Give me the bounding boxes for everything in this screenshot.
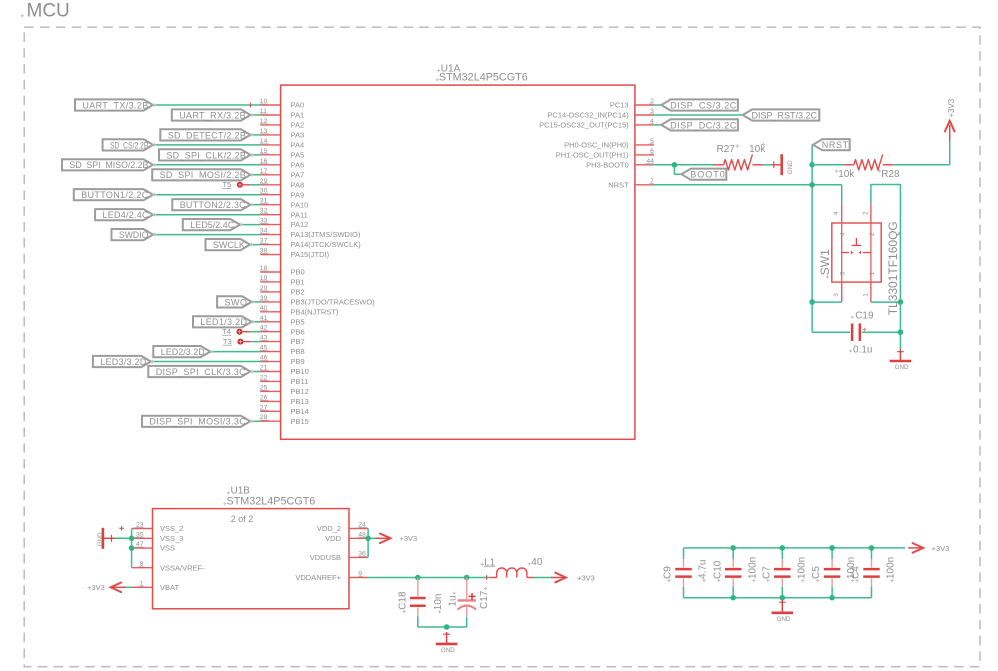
net flag NRST	[813, 139, 850, 150]
svg-text:PH3-BOOT0: PH3-BOOT0	[586, 160, 629, 169]
net flag SD_SPI_MISO/2.2B	[62, 159, 156, 170]
U1A pin 6 PH1-OSC_OUT(PH1)	[556, 148, 654, 160]
junction VSS	[129, 545, 135, 551]
junction cap bank bottom rail	[730, 595, 736, 601]
U1A pin 12 PA2	[260, 118, 304, 130]
wire net UART_RX	[251, 114, 261, 116]
svg-text:PA9: PA9	[291, 190, 305, 199]
junction VDD	[365, 536, 371, 542]
+3V3 supply arrow at VBAT	[111, 583, 126, 593]
svg-text:PA14(JTCK/SWCLK): PA14(JTCK/SWCLK)	[291, 240, 362, 249]
svg-text:PA12: PA12	[291, 220, 309, 229]
svg-text:DISP_SPI_CLK/3.3C: DISP_SPI_CLK/3.3C	[156, 367, 246, 377]
+3V3 supply arrow cap bank	[908, 543, 923, 553]
junction cap bank bottom rail	[780, 595, 786, 601]
net flag SD_SPI_CLK/2.2B	[159, 149, 254, 160]
U1A pin 45 PB8	[260, 345, 305, 357]
svg-text:R27: R27	[717, 144, 736, 155]
U1A pin 29 PA8	[260, 178, 304, 190]
net flag SD_SPI_MOSI/2.2B	[152, 169, 254, 180]
U1A value STM32L4P5CGT6	[436, 71, 528, 83]
+3V3 label after L1	[577, 573, 595, 582]
net flag DISP_CS/3.2C	[661, 99, 738, 110]
C5 value 100n (rotated)	[846, 557, 857, 582]
capacitor C17 polarized	[458, 578, 477, 617]
U1A pin 30 PA9	[260, 188, 304, 200]
ground symbol left of U1B (rotated)	[97, 526, 124, 549]
svg-text:PA6: PA6	[291, 160, 305, 169]
net flag BUTTON1/2.2C	[74, 189, 157, 200]
wire VBAT to +3V3	[121, 586, 132, 588]
+3V3 supply arrow at VDD	[376, 534, 391, 544]
wire net LED4	[153, 214, 260, 216]
U1A pin 3 PC14-OSC32_IN(PC14)	[547, 108, 654, 120]
svg-text:SW1: SW1	[818, 249, 832, 275]
wire VDDANREF+ net	[368, 577, 490, 579]
svg-text:SWO: SWO	[225, 297, 248, 307]
SW1 pad numbers	[833, 211, 869, 297]
test point T4	[222, 327, 250, 336]
U1A pin 40 PB4(NJTRST)	[260, 305, 339, 317]
U1A reference designator	[437, 63, 461, 74]
resistor R27	[713, 154, 763, 170]
svg-text:VDD_2: VDD_2	[317, 524, 341, 533]
junction bottom rail GND	[444, 624, 450, 630]
net flag SD_CS/2.2B	[103, 139, 157, 150]
svg-text:SWCLK: SWCLK	[213, 240, 245, 250]
net flag DISP_SPI_CLK/3.3C	[148, 366, 253, 377]
svg-text:TL3301TF160QG: TL3301TF160QG	[886, 221, 900, 315]
svg-text:SD_CS/2.2B: SD_CS/2.2B	[110, 140, 148, 150]
U1A pin 7 NRST	[608, 178, 654, 190]
svg-text:T5: T5	[222, 180, 231, 189]
svg-text:PB13: PB13	[291, 397, 309, 406]
svg-text:T3: T3	[223, 337, 232, 346]
svg-text:LED5/2.4C: LED5/2.4C	[190, 220, 235, 230]
R28 name label	[878, 169, 900, 180]
U1A pin 33 PA12	[260, 218, 308, 230]
wire net UART_TX	[153, 104, 260, 106]
wire VSS rail	[115, 529, 132, 568]
U1A pin 28 PB15	[260, 414, 309, 426]
svg-text:BUTTON2/2.3C: BUTTON2/2.3C	[180, 200, 246, 210]
wire net SD_SPI_MOSI	[250, 174, 260, 176]
svg-text:PB6: PB6	[291, 327, 305, 336]
svg-text:PH0-OSC_IN(PH0): PH0-OSC_IN(PH0)	[564, 141, 629, 150]
sheet title MCU	[21, 1, 70, 22]
wire net NRST horizontal from pin 7	[654, 184, 842, 186]
svg-text:2: 2	[869, 232, 876, 236]
net flag SWCLK	[206, 239, 254, 250]
svg-text:0.1u: 0.1u	[853, 345, 872, 356]
ground symbol below switch	[890, 350, 912, 372]
svg-text:C10: C10	[712, 560, 723, 579]
svg-text:100n: 100n	[796, 557, 807, 579]
svg-text:2 of 2: 2 of 2	[231, 514, 254, 524]
net tie tick before L1	[486, 575, 488, 580]
svg-text:PA4: PA4	[291, 141, 305, 150]
U1B pin 35 VSS_3	[132, 531, 184, 543]
L1 name label	[481, 558, 496, 569]
svg-text:SD_SPI_MISO/2.2B: SD_SPI_MISO/2.2B	[69, 160, 148, 170]
svg-text:+3V3: +3V3	[932, 544, 950, 553]
svg-text:GND: GND	[441, 647, 455, 654]
svg-text:LED3/3.2D: LED3/3.2D	[100, 357, 146, 367]
svg-text:VDDANREF+: VDDANREF+	[295, 573, 341, 582]
svg-text:NRST: NRST	[608, 180, 629, 189]
R27 name label	[717, 144, 740, 155]
junction cap bank bottom rail	[829, 595, 835, 601]
junction cap bank top rail	[730, 545, 736, 551]
net flag SWO	[217, 296, 255, 307]
U1A pin 37 PA14(JTCK/SWCLK)	[260, 238, 361, 250]
wire +3V3 top rail of cap bank	[684, 547, 906, 549]
U1A pin 20 PB2	[260, 285, 305, 297]
U1A pin 27 PB14	[260, 404, 309, 416]
svg-text:10n: 10n	[433, 594, 444, 611]
capacitor C9	[675, 548, 692, 598]
C17 value 1u (rotated)	[448, 592, 459, 607]
wire net SD_CS	[153, 144, 260, 146]
U1B pin 48 VDD	[325, 531, 368, 543]
svg-text:PC14-OSC32_IN(PC14): PC14-OSC32_IN(PC14)	[547, 111, 629, 120]
svg-text:PA5: PA5	[291, 150, 305, 159]
U1A pin 41 PB5	[260, 315, 305, 327]
U1A pin 2 PC13	[610, 98, 654, 110]
IC U1A STM32L4P5CGT6 body	[281, 85, 635, 439]
ground symbol right of R27 (rotated)	[772, 154, 794, 175]
capacitor C10	[725, 548, 742, 598]
C7 name label (rotated)	[761, 566, 772, 582]
C18 name label (rotated)	[398, 591, 409, 613]
wire net DISP_SPI_CLK	[250, 371, 260, 373]
U1A pin 42 PB6	[260, 325, 305, 337]
svg-text:GND: GND	[895, 364, 909, 371]
svg-text:100n: 100n	[886, 557, 897, 579]
svg-text:SWDIO: SWDIO	[119, 230, 148, 240]
C17 name label (rotated)	[479, 587, 490, 609]
wire net SWO	[252, 301, 261, 303]
U1A pin 31 PA10	[260, 198, 308, 210]
wire to test point T3	[251, 341, 261, 343]
U1A pin 5 PH0-OSC_IN(PH0)	[564, 138, 654, 150]
svg-text:GND: GND	[97, 532, 104, 546]
svg-text:NRST: NRST	[822, 140, 849, 150]
wire SW1 pin 1 to right rail	[871, 301, 901, 303]
svg-text:PA11: PA11	[291, 210, 308, 219]
capacitor C7	[774, 548, 791, 598]
SW1 pin names inside body	[840, 232, 876, 275]
C10 name label (rotated)	[712, 560, 723, 582]
U1A pin 43 PB7	[260, 335, 305, 347]
svg-text:1: 1	[869, 271, 876, 275]
svg-text:PA10: PA10	[291, 200, 309, 209]
svg-text:VBAT: VBAT	[160, 583, 179, 592]
svg-text:GND: GND	[777, 616, 791, 623]
svg-text:PB15: PB15	[291, 417, 309, 426]
U1B pin 8 VSSA/VREF-	[132, 561, 205, 573]
svg-text:PB4(NJTRST): PB4(NJTRST)	[291, 307, 339, 316]
U1A pin 46 PB9	[260, 355, 305, 367]
svg-text:+3V3: +3V3	[87, 583, 105, 592]
svg-text:SD_DETECT/2.2B: SD_DETECT/2.2B	[168, 130, 246, 140]
C5 name label (rotated)	[811, 566, 822, 582]
U1B value STM32L4P5CGT6	[223, 495, 315, 507]
junction C19 right / GND	[898, 329, 904, 335]
svg-text:+3V3: +3V3	[400, 534, 418, 543]
svg-text:C18: C18	[398, 591, 409, 610]
svg-text:STM32L4P5CGT6: STM32L4P5CGT6	[439, 71, 528, 83]
wire net SD_SPI_MISO	[153, 164, 260, 166]
wire R28 left	[812, 164, 843, 166]
+3V3 label at VBAT	[87, 583, 105, 592]
wire L1 to +3V3	[534, 577, 552, 579]
capacitor C4	[863, 548, 880, 598]
svg-text:SD_SPI_MOSI/2.2B: SD_SPI_MOSI/2.2B	[160, 170, 246, 180]
svg-text:PA2: PA2	[291, 121, 305, 130]
svg-text:PB10: PB10	[291, 367, 309, 376]
test point T5	[222, 180, 250, 189]
wire net BOOT0 from pin 44	[654, 165, 716, 174]
svg-text:10k: 10k	[838, 169, 855, 180]
C4 name label (rotated)	[851, 566, 862, 582]
svg-text:4: 4	[840, 232, 847, 236]
svg-text:UART_RX/3.2B: UART_RX/3.2B	[179, 110, 246, 120]
svg-text:+3V3: +3V3	[947, 99, 956, 117]
svg-text:PB2: PB2	[291, 288, 305, 297]
wire NRST to SW1 pin 4	[841, 185, 843, 204]
junction VSS_3	[129, 536, 135, 542]
switch SW1 body	[832, 204, 881, 302]
U1A pin 16 PA6	[260, 158, 304, 170]
wire net BUTTON1	[153, 194, 260, 196]
wire net SWDIO	[153, 234, 260, 236]
wire to test point T4	[250, 331, 260, 333]
capacitor C19	[852, 323, 866, 341]
svg-text:UART_TX/3.2B: UART_TX/3.2B	[82, 100, 148, 110]
U1A pin 26 PB13	[260, 394, 309, 406]
svg-text:DISP_CS/3.2C: DISP_CS/3.2C	[670, 100, 737, 110]
net flag LED3/3.2D	[93, 356, 154, 367]
svg-text:BOOT0: BOOT0	[690, 170, 726, 180]
U1B pin 23 VSS_2	[132, 522, 184, 534]
svg-text:PA1: PA1	[291, 111, 305, 120]
SW1 reference designator (rotated)	[818, 249, 832, 279]
svg-text:4.7u: 4.7u	[698, 560, 709, 579]
wire to test point T5	[250, 184, 260, 186]
ground symbol below cap bank	[772, 600, 794, 623]
junction cap bank top rail	[780, 545, 786, 551]
U1A pin 11 PA1	[260, 108, 304, 120]
wire R28 to +3V3	[893, 141, 949, 165]
U1B pin 9 VDDANREF+	[295, 571, 368, 583]
wire C18 C17 bottom rail	[418, 617, 467, 627]
svg-text:C17: C17	[479, 590, 490, 609]
SW1 value TL3301TF160QG (rotated)	[886, 221, 900, 315]
inductor L1	[490, 568, 534, 578]
+3V3 label top right (rotated)	[947, 99, 956, 117]
C19 value 0.1u	[849, 345, 872, 356]
capacitor C5	[824, 548, 841, 598]
svg-text:PB12: PB12	[291, 387, 309, 396]
wire net LED1	[252, 321, 261, 323]
svg-text:4: 4	[833, 211, 840, 215]
U1B pin 36 VDDUSB	[310, 550, 368, 562]
L1 value 40	[528, 557, 543, 568]
U1A pin 18 PB0	[260, 265, 305, 277]
U1A pin 38 PA15(JTDI)	[260, 248, 330, 260]
capacitor C18	[410, 578, 426, 628]
IC U1B STM32L4P5CGT6 body	[153, 509, 350, 609]
+3V3 supply arrow after L1	[551, 573, 566, 583]
svg-text:PB9: PB9	[291, 357, 305, 366]
svg-text:PA15(JTDI): PA15(JTDI)	[291, 250, 330, 259]
wire C19 to right rail	[862, 302, 900, 349]
ground symbol below C18/C17	[436, 632, 458, 654]
junction left rail bottom	[809, 299, 815, 305]
C19 name label	[851, 311, 874, 322]
U1A pin 21 PB10	[260, 365, 309, 377]
svg-text:PB5: PB5	[291, 317, 305, 326]
svg-text:PB8: PB8	[291, 347, 305, 356]
svg-text:VDDUSB: VDDUSB	[310, 553, 341, 562]
junction NRST / R28	[809, 162, 815, 168]
svg-text:DISP_SPI_MOSI/3.3C: DISP_SPI_MOSI/3.3C	[149, 417, 246, 427]
U1A pin 14 PA4	[260, 138, 304, 150]
svg-text:PC13: PC13	[610, 101, 629, 110]
svg-text:PA3: PA3	[291, 131, 305, 140]
net flag UART_RX/3.2B	[172, 109, 254, 120]
wire net BUTTON2	[250, 204, 260, 206]
svg-text:C19: C19	[855, 311, 874, 322]
U1A pin 22 PB11	[260, 374, 308, 386]
svg-text:PB0: PB0	[291, 268, 305, 277]
U1A pin 44 PH3-BOOT0	[586, 158, 654, 170]
U1A pin 15 PA5	[260, 148, 304, 160]
svg-text:VSSA/VREF-: VSSA/VREF-	[160, 563, 205, 572]
R28 value 10k	[835, 169, 856, 180]
R27 value 10k	[749, 143, 766, 155]
svg-text:PC15-OSC32_OUT(PC15): PC15-OSC32_OUT(PC15)	[539, 121, 629, 130]
svg-text:40: 40	[531, 557, 543, 568]
svg-text:PB3(JTDO/TRACESWO): PB3(JTDO/TRACESWO)	[291, 298, 376, 307]
C18 value 10n (rotated)	[433, 594, 444, 614]
svg-text:PH1-OSC_OUT(PH1): PH1-OSC_OUT(PH1)	[556, 151, 629, 160]
net flag BOOT0	[681, 169, 726, 180]
C4 value 100n (rotated)	[886, 557, 897, 582]
svg-text:PB11: PB11	[291, 377, 309, 386]
C7 value 100n (rotated)	[796, 557, 807, 582]
svg-text:C7: C7	[761, 566, 772, 579]
wire left rail to C19	[812, 302, 850, 332]
+3V3 label cap bank	[932, 544, 950, 553]
U1B reference designator	[227, 486, 251, 497]
svg-text:LED4/2.4C: LED4/2.4C	[103, 210, 149, 220]
junction at BOOT0 tap	[672, 162, 678, 168]
wire VDD rail	[368, 529, 377, 558]
wire R27 to GND	[763, 164, 772, 166]
U1A pin 19 PB1	[260, 275, 305, 287]
wire net NRST vertical	[811, 146, 813, 303]
U1B pin 24 VDD_2	[317, 522, 368, 534]
wire net SWCLK	[250, 244, 260, 246]
wire net SD_DETECT	[250, 134, 260, 136]
junction at C18	[415, 575, 421, 581]
net flag DISP_SPI_MOSI/3.3C	[142, 416, 254, 427]
net flag UART_TX/3.2B	[75, 99, 156, 110]
C10 value 100n (rotated)	[747, 557, 758, 582]
svg-text:C9: C9	[663, 566, 674, 579]
junction at C17	[464, 575, 470, 581]
svg-text:PA0: PA0	[291, 101, 305, 110]
C9 name label (rotated)	[663, 566, 674, 582]
svg-text:+3V3: +3V3	[577, 573, 595, 582]
U1A pin 13 PA3	[260, 128, 304, 140]
svg-text:PA13(JTMS/SWDIO): PA13(JTMS/SWDIO)	[291, 230, 361, 239]
svg-text:PB14: PB14	[291, 407, 309, 416]
+3V3 label at VDD	[400, 534, 418, 543]
wire net DISP_DC	[654, 124, 661, 126]
wire net DISP_RST	[654, 114, 743, 116]
svg-text:DISP_RST/3.2C: DISP_RST/3.2C	[752, 110, 818, 120]
wire net DISP_SPI_MOSI	[250, 420, 260, 422]
net flag DISP_DC/3.2C	[661, 119, 738, 130]
svg-text:1: 1	[862, 293, 869, 297]
U1A pin 10 PA0	[260, 98, 304, 110]
junction cap bank top rail	[869, 545, 875, 551]
svg-text:PA8: PA8	[291, 180, 305, 189]
svg-text:SD_SPI_CLK/2.2B: SD_SPI_CLK/2.2B	[166, 150, 246, 160]
svg-text:LED1/3.2D: LED1/3.2D	[200, 317, 247, 327]
svg-text:T4: T4	[222, 327, 231, 336]
svg-text:PA7: PA7	[291, 170, 305, 179]
resistor R28	[843, 154, 893, 170]
net flag BUTTON2/2.3C	[172, 199, 253, 210]
svg-text:VSS_2: VSS_2	[160, 524, 183, 533]
svg-text:C4: C4	[851, 566, 862, 579]
net flag LED2/3.2D	[153, 346, 213, 357]
junction cap bank top rail	[829, 545, 835, 551]
svg-text:LED2/3.2D: LED2/3.2D	[161, 347, 206, 357]
wire net LED2	[210, 351, 260, 353]
wire net DISP_CS	[654, 104, 661, 106]
wire GND bottom rail of cap bank	[684, 597, 872, 599]
net flag DISP_RST/3.2C	[743, 109, 820, 120]
svg-text:STM32L4P5CGT6: STM32L4P5CGT6	[227, 495, 316, 507]
svg-text:PB7: PB7	[291, 337, 305, 346]
svg-text:3: 3	[840, 271, 847, 275]
net flag LED4/2.4C	[95, 209, 156, 220]
net flag SD_DETECT/2.2B	[160, 129, 253, 140]
net flag LED1/3.2D	[193, 316, 255, 327]
U1A pin 39 PB3(JTDO/TRACESWO)	[260, 295, 375, 307]
svg-text:1u: 1u	[448, 595, 459, 606]
net flag LED5/2.4C	[183, 219, 243, 230]
svg-text:100n: 100n	[747, 557, 758, 579]
svg-text:C5: C5	[811, 566, 822, 579]
svg-text:MCU: MCU	[27, 1, 70, 22]
U1A pin 32 PA11	[260, 208, 308, 220]
U1A pin 4 PC15-OSC32_OUT(PC15)	[539, 118, 654, 130]
net flag SWDIO	[112, 229, 157, 240]
svg-text:2: 2	[862, 211, 869, 215]
svg-text:VSS: VSS	[160, 544, 175, 553]
wire SW1 pin 3 to left rail	[812, 301, 842, 303]
wire SW1 pin 2 to right rail	[871, 185, 901, 303]
svg-text:BUTTON1/2.2C: BUTTON1/2.2C	[81, 190, 149, 200]
net tie tick on UART_TX wire	[250, 103, 252, 108]
svg-text:VDD: VDD	[325, 534, 341, 543]
